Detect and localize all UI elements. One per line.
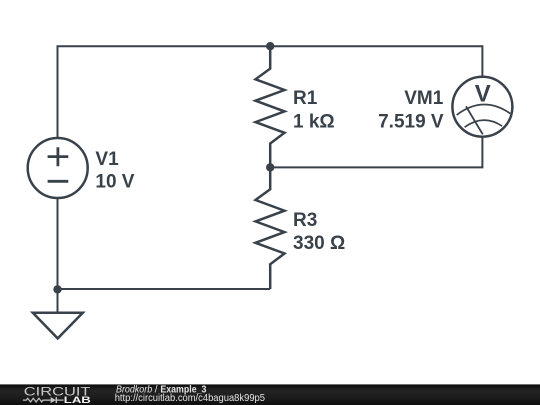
value 7.519 V xyxy=(378,111,444,132)
svg-text:LAB: LAB xyxy=(64,395,92,405)
wire middle node to VM1 bottom corner xyxy=(270,137,482,168)
node top (R1 / top wire junction) xyxy=(266,42,274,50)
logo CIRCUIT xyxy=(24,384,92,398)
value 1 kOhm xyxy=(293,111,335,132)
node middle (R1 / R3 / VM1 junction) xyxy=(266,163,274,171)
logo resistor-diode glyph xyxy=(23,397,64,403)
wire top run (V1 top, up, across, down to VM1 top) xyxy=(58,46,483,138)
voltmeter VM1 xyxy=(452,77,512,137)
svg-text:R1: R1 xyxy=(293,88,318,109)
label VM1 xyxy=(404,88,444,109)
wire V1 bottom to ground node xyxy=(57,198,59,313)
svg-text:VM1: VM1 xyxy=(404,88,444,109)
svg-text:V1: V1 xyxy=(95,149,119,170)
svg-text:R3: R3 xyxy=(293,210,317,231)
node ground (V1 / R3 bottom junction) xyxy=(53,285,61,293)
value 10 V xyxy=(95,172,134,193)
svg-text:330 Ω: 330 Ω xyxy=(293,233,345,254)
voltage source V1 xyxy=(28,138,88,198)
logo LAB xyxy=(64,395,92,405)
svg-text:7.519 V: 7.519 V xyxy=(378,111,444,132)
wire bottom horizontal (R3 bottom to ground node) xyxy=(58,288,271,290)
footer author line xyxy=(116,384,207,395)
resistor R3 xyxy=(256,167,285,289)
value 330 Ohm xyxy=(293,233,345,254)
resistor R1 xyxy=(256,46,285,167)
svg-text:V: V xyxy=(475,81,491,108)
svg-text:http://circuitlab.com/c4bagua8: http://circuitlab.com/c4bagua8k99p5 xyxy=(115,393,266,404)
label R1 xyxy=(293,88,318,109)
footer bar xyxy=(0,384,540,405)
label V1 xyxy=(95,149,119,170)
svg-text:10 V: 10 V xyxy=(95,172,134,193)
label R3 xyxy=(293,210,317,231)
ground xyxy=(33,313,83,339)
footer url line xyxy=(115,393,266,404)
svg-text:1 kΩ: 1 kΩ xyxy=(293,111,335,132)
